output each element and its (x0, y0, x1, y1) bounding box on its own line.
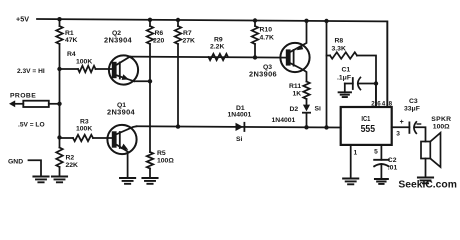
wire Q2 collector to Q3 base (130, 57, 287, 58)
svg-text:2N3904: 2N3904 (104, 35, 133, 44)
ground below R5 (142, 178, 157, 184)
svg-text:1K: 1K (293, 90, 302, 97)
node: rail junction R1 (57, 17, 61, 21)
svg-text:100Ω: 100Ω (433, 124, 450, 131)
wire Q2 emitter to node (134, 80, 150, 82)
svg-text:IC1: IC1 (361, 114, 370, 123)
svg-text:R7: R7 (183, 30, 192, 37)
svg-text:100Ω: 100Ω (157, 157, 174, 164)
svg-text:2: 2 (371, 100, 375, 107)
svg-text:R2: R2 (66, 155, 75, 162)
transistor Q2 2N3904 (109, 55, 138, 84)
svg-text:5: 5 (374, 149, 378, 156)
diode D2 1N4001 (303, 105, 310, 112)
node: rail junction R7 (176, 18, 180, 22)
ground below R2 (52, 177, 67, 183)
node Q2 emitter on R6 column (148, 79, 152, 83)
timer IC1 555 (341, 107, 392, 145)
pin 1 wire (350, 145, 352, 179)
wire left column (59, 19, 61, 147)
resistor R2 (56, 148, 62, 168)
svg-text:4.7K: 4.7K (260, 34, 274, 41)
svg-text:4: 4 (382, 100, 386, 107)
wire probe to column (49, 103, 60, 105)
svg-text:6: 6 (377, 100, 381, 107)
wire pins 4 8 to +5V (386, 21, 388, 107)
svg-text:100K: 100K (76, 126, 92, 133)
svg-text:22K: 22K (66, 162, 79, 169)
node R8 column bottom (324, 125, 328, 129)
ground pin 1 (343, 179, 358, 185)
svg-text:R9: R9 (214, 37, 223, 44)
svg-text:33μF: 33μF (404, 105, 420, 112)
ground below Q1 (120, 178, 135, 184)
wire collector line to IC (137, 126, 341, 127)
resistor R5 (147, 152, 153, 169)
svg-text:.1μF: .1μF (337, 74, 351, 81)
ground below C1 (339, 92, 351, 97)
svg-text:C1: C1 (342, 66, 351, 73)
power rail +5V (37, 19, 387, 107)
node: rail junction R8 (324, 19, 328, 23)
resistor R3 (60, 137, 113, 139)
svg-text:2N3904: 2N3904 (107, 107, 136, 116)
node HI 2.3V (57, 67, 61, 71)
node: rail junction R10 (253, 18, 257, 22)
pin 3 wire (392, 126, 410, 128)
node: rail junction Q3 emitter (304, 19, 308, 23)
svg-text:100K: 100K (76, 59, 92, 66)
node LO .5V (57, 135, 61, 139)
diode D1 1N4001 (236, 123, 244, 131)
svg-text:R8: R8 (335, 37, 344, 44)
resistor R4 (60, 68, 113, 70)
transistor Q3 2N3906 (280, 43, 309, 72)
resistor R11 (303, 82, 309, 100)
svg-text:R6: R6 (155, 30, 164, 37)
pin 5 wire (380, 145, 382, 160)
svg-text:R10: R10 (260, 27, 273, 34)
node: rail junction R6 (148, 18, 152, 22)
resistor R7 (177, 20, 179, 127)
svg-text:8: 8 (389, 100, 393, 107)
svg-text:2N3906: 2N3906 (249, 70, 277, 79)
node R7 bottom (176, 124, 180, 128)
svg-text:3.3K: 3.3K (332, 45, 346, 52)
svg-text:C3: C3 (409, 98, 418, 105)
svg-text:.01: .01 (388, 165, 398, 172)
node R10 base line (253, 55, 257, 59)
svg-text:PROBE: PROBE (10, 93, 36, 100)
svg-text:GND: GND (8, 158, 23, 165)
svg-text:.5V = LO: .5V = LO (18, 122, 45, 129)
svg-text:R11: R11 (289, 83, 301, 90)
svg-text:47K: 47K (65, 37, 78, 44)
svg-text:+5V: +5V (16, 15, 29, 24)
wire pins 2 6 (375, 84, 377, 108)
resistor R10 (254, 21, 256, 58)
svg-text:1N4001: 1N4001 (272, 117, 296, 124)
svg-text:3: 3 (396, 131, 400, 138)
svg-text:C2: C2 (388, 157, 397, 164)
resistor R9 (209, 54, 229, 60)
svg-text:27K: 27K (183, 38, 196, 45)
node D2 bottom (304, 125, 308, 129)
svg-text:555: 555 (361, 123, 376, 135)
resistor R8 3.3K (326, 21, 328, 127)
svg-text:2.2K: 2.2K (210, 44, 224, 51)
svg-text:Si: Si (315, 106, 322, 113)
capacitor C3 33uF (408, 122, 410, 132)
ground below C2 (375, 179, 388, 184)
capacitor C1 .1uF (345, 83, 376, 85)
svg-text:1: 1 (354, 150, 358, 157)
svg-text:+: + (400, 119, 404, 126)
svg-text:220: 220 (153, 38, 165, 45)
capacitor C2 .01 (374, 159, 389, 161)
ground below speaker (418, 178, 433, 184)
svg-text:SPKR: SPKR (431, 116, 451, 123)
svg-text:R4: R4 (67, 51, 76, 58)
node probe (57, 102, 61, 106)
svg-text:D2: D2 (290, 106, 299, 113)
svg-text:R5: R5 (157, 150, 166, 157)
speaker SPKR 100 ohm (421, 142, 430, 159)
svg-text:1N4001: 1N4001 (228, 111, 252, 118)
svg-text:R1: R1 (65, 30, 74, 37)
svg-text:R3: R3 (80, 119, 89, 126)
svg-text:2.3V = HI: 2.3V = HI (17, 68, 45, 75)
svg-text:Si: Si (236, 136, 243, 143)
svg-text:SeekIC.com: SeekIC.com (398, 179, 457, 190)
resistor R1 (56, 26, 62, 44)
node C1 junction (374, 81, 378, 85)
transistor Q1 2N3904 (107, 125, 136, 154)
resistor R6 (149, 20, 151, 152)
